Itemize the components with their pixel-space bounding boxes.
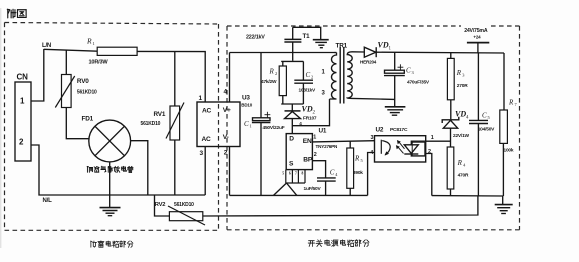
label 陶瓷气体放电管 [87,166,133,172]
resistor R1 [97,47,137,55]
capacitor C5 [477,53,479,120]
U2 light arrows [398,142,404,153]
svg-text:1: 1 [313,135,316,141]
wire EN to opto pin3 [312,141,374,142]
svg-text:100k: 100k [504,148,514,154]
svg-text:1: 1 [199,95,203,102]
earth ground below N/L rail [100,195,121,216]
svg-text:FD1: FD1 [82,116,94,123]
wire secondary ground rail [432,195,504,197]
svg-text:2: 2 [224,150,228,157]
wire secondary bottom to C3 ground node [352,98,395,99]
svg-text:EN: EN [303,138,312,145]
scan page left edge [0,8,2,248]
svg-text:V+: V+ [223,107,231,114]
resistor R3 [450,53,452,59]
svg-text:C: C [482,112,487,120]
section label 开关电源电路部分 [308,240,369,247]
svg-text:2: 2 [311,75,313,80]
svg-text:R: R [354,155,360,163]
transformer TR1 core [340,47,344,104]
wire CN pin1 to top rail [31,49,44,101]
ground below C3 [385,107,406,115]
wire bridge pin3 down [204,147,206,196]
capacitor C3 [394,52,396,70]
capacitor 222/1kV Y-cap [284,27,301,61]
wire top rail L to R1 [44,49,98,51]
diode VD1 [352,51,364,53]
svg-text:R: R [86,37,92,46]
svg-text:RV0: RV0 [77,78,89,85]
wire FD1 right to bottom rail [131,141,148,195]
lightning-protection section dashed box [5,23,219,231]
zener diode VD4 [442,117,459,123]
resistor R5 [349,141,351,148]
varistor RV2 [155,195,170,216]
transformer TR1 secondary winding [347,52,352,99]
svg-text:PC817C: PC817C [390,127,408,133]
node L/N label [42,43,51,49]
U2 pin wires [368,141,451,195]
svg-text:270R: 270R [457,83,468,89]
svg-text:R: R [508,99,514,107]
svg-text:1uF/50V: 1uF/50V [304,186,322,192]
svg-text:R: R [457,159,463,167]
transformer TR1 primary winding [330,53,337,100]
wire bridge V+ up to rail [229,53,231,103]
node N/L label [43,198,53,204]
snubber frame with resistor R2 and capacitor C2 [281,61,303,104]
svg-text:U3: U3 [242,95,250,102]
svg-text:222/1kV: 222/1kV [246,35,265,41]
U1 ground skirt [274,183,297,195]
svg-text:4: 4 [370,150,373,156]
svg-text:CN: CN [17,73,29,82]
svg-text:U2: U2 [376,127,384,134]
diode VD2 [291,104,293,111]
wire +24 rail corner down to R7 [503,53,505,110]
svg-text:2: 2 [275,71,277,76]
svg-text:C: C [244,120,249,128]
U2 phototransistor [381,140,390,155]
bridge rectifier U3 [197,102,240,147]
wire +24V rail [376,51,504,54]
svg-text:V-: V- [223,134,229,141]
svg-text:C: C [406,67,411,75]
section label 防雷电路部分 [91,241,133,248]
svg-text:R: R [456,69,462,77]
wire bridge V- down to primary ground rail [229,147,231,196]
svg-text:450V/22uF: 450V/22uF [263,125,285,131]
switcher IC U1 TNY276PN [286,134,312,170]
svg-text:RV2: RV2 [155,202,166,208]
svg-text:104/50V: 104/50V [478,126,495,132]
svg-text:VD: VD [302,105,313,114]
wire FD1 bottom to N/L rail [109,162,111,195]
svg-text:22V/1W: 22V/1W [453,133,470,139]
svg-text:1: 1 [250,124,252,129]
svg-text:+24: +24 [473,35,481,40]
resistor R7 [500,110,508,143]
varistor RV0 [65,50,67,74]
wire R1 to bridge pin1 corner [137,51,205,102]
svg-text:47k/2W: 47k/2W [261,79,277,85]
svg-text:AC: AC [202,108,212,115]
svg-text:561KD10: 561KD10 [77,90,97,96]
svg-text:10R/3W: 10R/3W [89,59,109,65]
U2 LED [404,141,425,156]
svg-text:390k: 390k [353,170,363,176]
gas discharge tube FD1 [89,120,131,162]
title 附图 [7,9,26,18]
capacitor C4 bypass [312,161,325,178]
capacitor C1 [260,53,262,118]
varistor RV1 [174,52,176,106]
svg-text:TNY276PN: TNY276PN [316,144,339,149]
connector CN [15,82,31,161]
resistor R4 [447,147,454,189]
svg-text:VD: VD [378,41,389,50]
svg-text:BP: BP [303,157,313,164]
svg-text:3: 3 [200,150,204,157]
wire primary ground rail [230,194,368,196]
svg-text:R: R [269,68,275,76]
optocoupler U2 PC817C [375,136,426,162]
svg-text:1: 1 [431,135,434,141]
earth ground right [495,196,513,214]
capacitor C2 [294,80,313,83]
wire primary V+ rail [230,52,335,54]
output terminal 24V/75mA [461,24,489,40]
svg-text:2: 2 [314,152,317,158]
svg-text:2: 2 [428,149,431,155]
U1 source pin stubs [286,170,305,183]
svg-text:3: 3 [371,135,374,141]
svg-text:561KD10: 561KD10 [174,202,194,208]
svg-text:AC: AC [202,136,212,143]
svg-text:470uF/35V: 470uF/35V [407,80,430,86]
wire RV2 right long bottom rail to secondary ground [203,196,478,216]
svg-text:C: C [330,169,335,177]
ground top right of T1 [313,40,329,48]
svg-text:561KD10: 561KD10 [141,121,161,127]
svg-text:BD10: BD10 [241,102,252,107]
node U1 label [319,128,327,135]
svg-text:FR107: FR107 [303,115,317,121]
wire R3 to zener [450,100,452,120]
svg-text:HER204: HER204 [360,59,377,64]
wire drain node to transformer [292,99,329,126]
svg-text:470R: 470R [458,173,469,179]
svg-text:VD: VD [455,110,466,119]
switching-supply section dashed box [227,26,520,230]
svg-text:N/L: N/L [43,198,53,204]
svg-text:103/1kV: 103/1kV [299,88,316,94]
resistor R2 [279,66,286,96]
svg-text:C: C [306,71,311,79]
svg-text:4: 4 [224,89,228,96]
node T1 wire to top ground [293,27,321,39]
svg-text:U1: U1 [319,128,327,135]
svg-text:D: D [289,136,294,143]
svg-text:TR1: TR1 [336,43,348,50]
wire CN pin2 to bottom N/L rail [31,145,205,195]
svg-text:RV1: RV1 [154,111,166,118]
svg-text:24V/75mA: 24V/75mA [464,28,488,34]
svg-text:L/N: L/N [42,43,51,49]
svg-text:T1: T1 [303,33,311,40]
wire RV0 to FD1 left [66,108,89,139]
